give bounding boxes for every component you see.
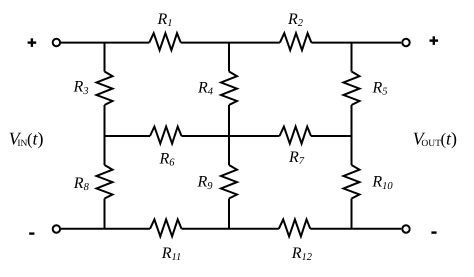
svg-text:R8: R8 [73, 175, 90, 193]
svg-text:VIN(t): VIN(t) [9, 128, 44, 149]
svg-text:R12: R12 [291, 245, 313, 263]
wire: top rail, R2 to right terminal [311, 42, 401, 44]
polarity - (bottom-left) [29, 232, 34, 234]
wire: left vertical, R8 to bottom rail [104, 199, 106, 229]
wire: bottom rail, R12 to right terminal [310, 228, 401, 230]
resistor R1 [149, 33, 181, 50]
resistor R3 [97, 72, 113, 106]
svg-text:R4: R4 [197, 80, 214, 98]
wire: right vertical, R10 to bottom rail [351, 199, 353, 229]
resistor R6 [150, 127, 182, 144]
svg-text:R6: R6 [159, 151, 176, 169]
terminal circle: output + (top-right) [402, 39, 409, 46]
resistor R8 [97, 165, 113, 199]
wire: bottom rail, R11 to R12 [182, 228, 279, 230]
wire: right vertical, R5 to middle rail [351, 105, 353, 165]
resistor R4 [221, 72, 237, 106]
wire: top rail, R1 to R2 [181, 42, 280, 44]
resistor R5 [344, 72, 360, 106]
polarity + (top-right) [430, 36, 439, 45]
svg-text:R9: R9 [197, 174, 214, 192]
resistor R10 [344, 165, 360, 199]
wire: center vertical, top rail to R4 [228, 43, 230, 72]
resistor R2 [280, 33, 312, 50]
wire: right vertical, top rail to R5 [351, 43, 353, 72]
resistor R11 [150, 219, 182, 236]
polarity - (bottom-right) [431, 231, 436, 233]
svg-text:R7: R7 [288, 149, 305, 167]
polarity + (top-left) [28, 38, 37, 47]
wire: middle rail, left vertical to R6 [105, 135, 151, 137]
terminal circle: input + (top-left) [53, 39, 60, 46]
wire: bottom rail, left terminal to R11 [61, 228, 150, 230]
resistor R12 [279, 219, 311, 236]
wire: center vertical, R9 to bottom rail [228, 199, 230, 229]
resistor R9 [221, 165, 237, 199]
svg-text:R5: R5 [372, 80, 388, 98]
svg-text:R2: R2 [287, 11, 304, 29]
wire: middle rail, R7 to right vertical [311, 135, 352, 137]
svg-text:VOUT(t): VOUT(t) [413, 128, 457, 149]
terminal circle: output - (bottom-right) [402, 225, 409, 232]
wire: left vertical, node A to R3 [104, 43, 106, 72]
resistor R7 [280, 127, 312, 144]
wire: middle rail, R6 to R7 [182, 135, 280, 137]
svg-text:R11: R11 [161, 245, 182, 263]
wire: center vertical, R4 to middle rail [228, 105, 230, 165]
wire: left vertical, R3 to middle rail [104, 105, 106, 165]
wire: top rail, left terminal to R1 [61, 42, 149, 44]
svg-text:R10: R10 [371, 174, 393, 192]
terminal circle: input - (bottom-left) [53, 225, 60, 232]
svg-text:R1: R1 [157, 11, 173, 29]
svg-text:R3: R3 [73, 79, 89, 97]
